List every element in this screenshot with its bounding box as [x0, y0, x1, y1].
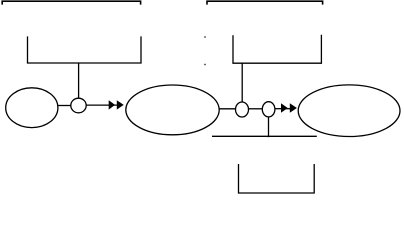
horizontal line L1	[212, 135, 317, 137]
large ellipse E3	[298, 85, 400, 137]
top bracket B1	[2, 1, 140, 4]
node circle N3	[262, 102, 275, 117]
node circle N1	[71, 98, 86, 113]
wire stem from bracket B3	[78, 63, 80, 99]
bottom bracket B5	[239, 164, 315, 193]
arrowhead A1	[109, 100, 115, 109]
node circle N2	[236, 102, 249, 117]
bracket B3	[28, 36, 142, 63]
top bracket B2	[207, 1, 323, 4]
large ellipse E2	[126, 85, 219, 135]
small ellipse E1	[6, 88, 58, 128]
wire N1 to arrows	[86, 104, 117, 106]
arrowhead A2	[117, 100, 124, 109]
wire stem from node N3 down	[268, 117, 270, 137]
arrowhead A4	[290, 103, 297, 112]
wire E1 to node N1	[58, 105, 71, 107]
arrowhead A3	[281, 103, 288, 112]
bracket B4	[233, 35, 321, 63]
wire N2 to node N3	[248, 108, 263, 110]
wire N3 to arrows	[275, 108, 290, 110]
dot mark upper	[204, 36, 206, 38]
wire stem from bracket B4	[241, 63, 243, 102]
wire E2 to node N2	[219, 108, 236, 110]
dot mark lower	[204, 64, 206, 66]
